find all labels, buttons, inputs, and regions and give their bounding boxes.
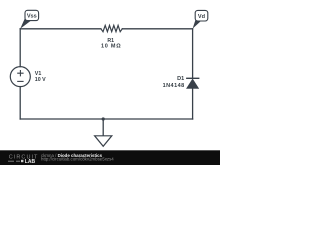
resistor R1 xyxy=(101,25,122,31)
svg-text:http://circuitlab.com/c8kv2mbs: http://circuitlab.com/c8kv2mbse5xzs4 xyxy=(41,157,114,162)
svg-text:V1: V1 xyxy=(35,71,42,77)
footer logo LAB row xyxy=(8,159,35,165)
svg-text:LAB: LAB xyxy=(25,159,36,165)
junction node dot xyxy=(102,117,105,120)
wire right vertical upper xyxy=(192,29,194,79)
wire left vertical upper xyxy=(19,29,21,67)
wire top-right horizontal xyxy=(122,28,192,30)
wire right vertical lower xyxy=(192,88,194,119)
svg-text:10 MΩ: 10 MΩ xyxy=(101,43,121,49)
flag Vd xyxy=(193,10,208,28)
ground xyxy=(95,136,112,147)
voltage source V1 xyxy=(10,67,30,87)
svg-text:1N4148: 1N4148 xyxy=(163,83,185,89)
wire bottom horizontal xyxy=(20,118,192,120)
svg-text:10 V: 10 V xyxy=(35,77,46,83)
wire top-left horizontal xyxy=(20,28,101,30)
diode D1 xyxy=(186,78,199,88)
svg-text:D1: D1 xyxy=(177,76,184,82)
wire left vertical lower xyxy=(19,87,21,119)
svg-text:Vss: Vss xyxy=(27,14,37,20)
resistor labels R1 / 10 MΩ xyxy=(101,38,121,49)
V1 value labels xyxy=(35,71,46,83)
footer title line xyxy=(41,153,114,162)
footer bar xyxy=(0,150,220,165)
svg-text:Vd: Vd xyxy=(198,14,206,20)
diode labels D1 / 1N4148 xyxy=(163,76,185,89)
flag Vss xyxy=(20,10,38,29)
wire ground stub xyxy=(102,119,104,136)
